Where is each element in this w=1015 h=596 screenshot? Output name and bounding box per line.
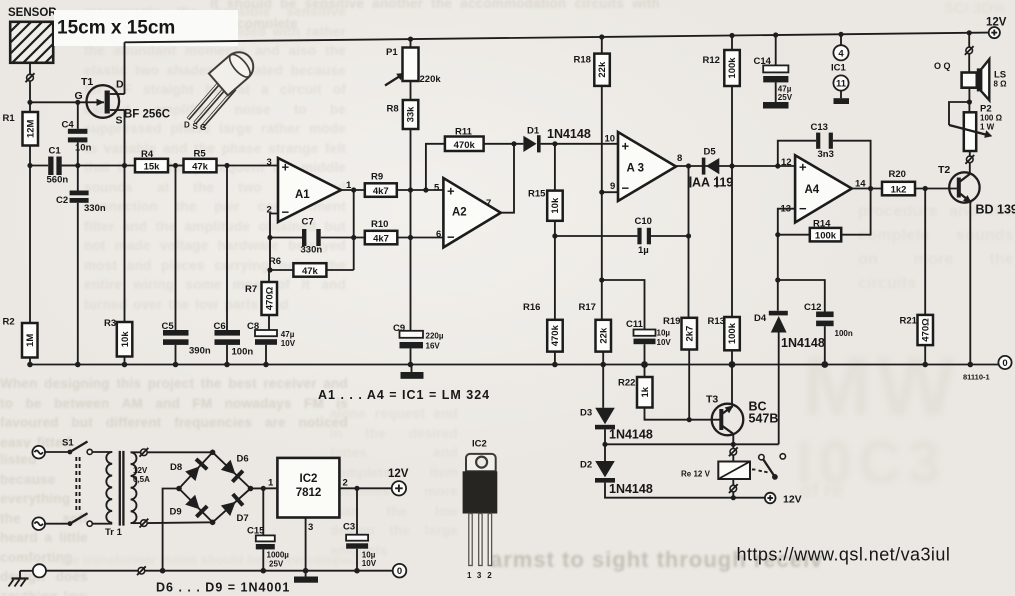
svg-text:470Ω: 470Ω <box>264 286 275 310</box>
capacitor C15 1000u electrolytic <box>247 488 289 570</box>
transistor T2 BD139 <box>938 164 980 206</box>
svg-text:IC2: IC2 <box>472 439 487 450</box>
svg-text:1k2: 1k2 <box>891 185 907 196</box>
resistor R21 470ohm <box>900 189 934 365</box>
+12V rail (top) <box>125 33 990 43</box>
svg-text:1M: 1M <box>25 334 36 347</box>
svg-text:R14: R14 <box>813 219 831 230</box>
svg-text:25V: 25V <box>269 560 284 569</box>
svg-text:D3: D3 <box>580 408 592 419</box>
svg-text:R5: R5 <box>194 149 207 160</box>
resistor R13 100k <box>708 316 740 365</box>
node: R15/C10 line <box>552 233 557 238</box>
node: A1 out / feedback <box>351 187 356 192</box>
svg-text:A4: A4 <box>805 184 820 196</box>
svg-text:11: 11 <box>836 79 847 90</box>
mains source lower <box>32 517 70 530</box>
op-amp A3 <box>605 132 683 201</box>
psu rail dots <box>160 568 360 574</box>
node: D1/R15 <box>552 141 557 146</box>
svg-text:100n: 100n <box>232 347 254 358</box>
resistor R9 4k7 <box>365 172 397 198</box>
svg-text:C5: C5 <box>162 321 175 332</box>
svg-text:390n: 390n <box>189 346 211 357</box>
svg-text:9: 9 <box>610 181 615 192</box>
wire: secondary bottom <box>131 522 141 524</box>
svg-text:0: 0 <box>1002 358 1007 369</box>
resistor R1 12M <box>3 102 39 165</box>
svg-text:D5: D5 <box>704 147 717 158</box>
capacitor C12 100n <box>778 280 853 365</box>
transistor package photo (TO-92) <box>184 46 259 132</box>
transformer Tr1 <box>105 451 150 538</box>
wire: rail to speaker <box>968 33 970 48</box>
node: pin2/R6/R7 <box>267 267 272 272</box>
svg-text:A1 . . . A4 = IC1 = LM 324: A1 . . . A4 = IC1 = LM 324 <box>318 388 490 402</box>
svg-text:547B: 547B <box>749 412 779 426</box>
ghost headline letters right side <box>802 338 959 435</box>
svg-text:A2: A2 <box>452 207 467 219</box>
node: P1 chain on pin5 line <box>408 187 413 192</box>
svg-text:4: 4 <box>838 48 844 59</box>
diode D1 1N4148 <box>523 126 618 153</box>
ground bar below pin11 <box>834 98 850 104</box>
node: T1 source on line <box>122 163 127 168</box>
svg-text:C12: C12 <box>804 302 821 313</box>
wire: A4 pin13 stub <box>778 209 795 235</box>
wire: sensor to gate node <box>29 63 31 103</box>
node: P1 chain on pin6 line <box>408 235 413 240</box>
svg-text:47k: 47k <box>192 162 209 173</box>
relay Re 12V <box>681 444 750 497</box>
svg-text:470k: 470k <box>454 140 476 151</box>
svg-text:16V: 16V <box>426 342 441 351</box>
capacitor C14 47u electrolytic <box>754 35 793 102</box>
svg-text:330n: 330n <box>84 203 106 214</box>
capacitor C11 10u electrolytic <box>602 280 672 365</box>
wire: bridge right to IC2 <box>251 487 278 489</box>
svg-text:R15: R15 <box>528 189 546 200</box>
diode D3 1N4148 <box>580 365 615 445</box>
node: relay bottom on 12V wire <box>731 495 736 500</box>
svg-text:BF 256C: BF 256C <box>124 109 170 121</box>
node: R11 tap on pin5 line <box>423 187 428 192</box>
node: R21 tap <box>923 186 928 191</box>
svg-text:R20: R20 <box>889 169 906 180</box>
ground bar below IC2 <box>294 577 318 583</box>
svg-text:470k: 470k <box>550 324 561 346</box>
bridge nodes <box>176 450 253 526</box>
svg-text:−: − <box>622 181 630 196</box>
node: R1 bottom / C1 left <box>27 163 32 168</box>
svg-text:12: 12 <box>781 157 792 168</box>
svg-text:C3: C3 <box>343 522 355 533</box>
node: pin2/C7 <box>267 235 272 240</box>
capacitor C2 330n <box>56 166 106 365</box>
svg-text:C2: C2 <box>56 195 68 206</box>
capacitor C1 560n (series in wire) <box>30 146 78 186</box>
wire: gate wire <box>30 101 104 103</box>
svg-text:+: + <box>447 184 455 199</box>
svg-text:47µ: 47µ <box>281 330 295 339</box>
wire: T2 emitter to 0 rail <box>969 202 971 365</box>
label BC 547B <box>749 400 779 426</box>
label AA119 <box>691 176 734 190</box>
node: R18 line to A3 pin9 <box>599 190 604 195</box>
svg-text:R8: R8 <box>387 104 399 115</box>
resistor R5 47k <box>184 149 217 173</box>
wire: A3 output line to A4 <box>676 165 795 167</box>
capacitor C8 47u electrolytic <box>247 321 296 365</box>
diode D7 <box>220 493 244 517</box>
svg-text:T2: T2 <box>938 164 950 176</box>
svg-text:D1: D1 <box>527 126 540 137</box>
svg-text:−: − <box>282 205 290 220</box>
bleed-through text, under IC2 photo column <box>330 404 458 596</box>
transistor T3 BC547B <box>706 394 743 436</box>
capacitor C4 10n <box>62 102 92 165</box>
svg-text:100n: 100n <box>835 329 853 338</box>
svg-text:G: G <box>75 90 83 102</box>
svg-text:IC2: IC2 <box>300 473 318 485</box>
white pasted label <box>54 10 238 46</box>
bleed-through magazine text, left column <box>84 2 346 368</box>
wire: C10/R19 vertical <box>688 166 690 318</box>
svg-text:12V: 12V <box>388 468 409 480</box>
svg-text:8 Ω: 8 Ω <box>994 80 1008 89</box>
resistor R12 100k <box>703 36 740 167</box>
connector (collector) <box>965 155 974 164</box>
+12V terminal (relay) <box>765 493 802 506</box>
node: T3 collector / relay <box>731 442 736 447</box>
svg-text:1: 1 <box>268 478 274 489</box>
svg-text:1k: 1k <box>640 386 651 397</box>
svg-text:1000µ: 1000µ <box>267 551 290 560</box>
svg-text:Tr 1: Tr 1 <box>105 527 123 538</box>
wire: A1 pin2 stub <box>270 214 278 271</box>
resistor R3 10k <box>104 318 132 365</box>
resistor R20 1k2 <box>882 169 915 196</box>
wire: R5 to A1 pin3 <box>217 165 279 167</box>
svg-text:C1: C1 <box>49 146 62 157</box>
svg-text:1N4148: 1N4148 <box>609 482 653 496</box>
svg-text:12V: 12V <box>986 17 1007 29</box>
IC2 regulator 7812 <box>268 458 348 533</box>
wire: T2 collector up <box>969 163 971 174</box>
svg-text:S1: S1 <box>62 438 74 449</box>
svg-text:A1: A1 <box>295 189 310 201</box>
wire: A2 output up <box>501 144 514 213</box>
svg-text:A 3: A 3 <box>627 163 644 175</box>
node: R14 tap on pin13 chain <box>775 232 780 237</box>
node: feedback vertical on output <box>868 186 873 191</box>
resistor R19 2k7 <box>663 316 697 420</box>
loudspeaker LS 8ohm <box>962 59 1008 100</box>
svg-text:8: 8 <box>677 153 682 164</box>
svg-text:C13: C13 <box>811 122 828 133</box>
connector (secondary bottom) <box>140 519 149 528</box>
svg-text:C15: C15 <box>247 526 265 537</box>
wire: T3 collector down <box>732 434 734 445</box>
svg-text:C7: C7 <box>302 217 314 228</box>
svg-text:220µ: 220µ <box>426 332 444 341</box>
capacitor C6 100n <box>214 166 254 365</box>
capacitor C5 390n <box>162 166 211 365</box>
node: feedback/R10 <box>351 235 356 240</box>
+12V terminal top right <box>986 17 1007 39</box>
wire: relay node line <box>605 443 779 445</box>
0V rail (main) <box>30 364 999 366</box>
svg-text:C11: C11 <box>626 319 644 330</box>
svg-text:0,5A: 0,5A <box>133 475 150 484</box>
svg-text:R7: R7 <box>245 284 257 295</box>
svg-text:100k: 100k <box>727 322 738 344</box>
node: C10 right <box>686 233 691 238</box>
svg-text:+: + <box>622 139 630 154</box>
connector (psu rail) <box>137 566 146 575</box>
diode D6 <box>220 459 244 483</box>
svg-text:BD 139: BD 139 <box>976 203 1015 217</box>
wire: IC2 pin3 down <box>305 518 307 577</box>
wire: to R3 <box>124 166 126 323</box>
wire: main input line to A1 <box>62 165 135 167</box>
svg-text:C6: C6 <box>214 321 226 332</box>
wire: pin13 chain down <box>777 235 779 311</box>
svg-text:1N4148: 1N4148 <box>547 127 591 141</box>
sensor plate (hatched box) <box>2 2 78 73</box>
wire: speaker to P2 <box>968 88 970 113</box>
svg-text:D: D <box>116 79 124 91</box>
svg-text:330n: 330n <box>301 245 323 256</box>
wire: R16 down <box>554 236 556 320</box>
connector (speaker top) <box>965 46 974 55</box>
svg-text:C14: C14 <box>754 56 772 67</box>
svg-text:T3: T3 <box>706 394 718 406</box>
svg-text:R16: R16 <box>523 302 540 313</box>
svg-text:15cm x 15cm: 15cm x 15cm <box>57 18 175 39</box>
wire: T1 drain to +12V rail <box>124 42 126 94</box>
IC1 supply pin 4 <box>833 34 848 60</box>
svg-text:4k7: 4k7 <box>373 186 389 197</box>
bleed-through text, left bottom <box>0 374 348 448</box>
svg-text:SENSOR: SENSOR <box>8 7 57 19</box>
node: R4/R5 C5 tap <box>173 163 178 168</box>
wire: IC2 out to 12V terminal <box>339 487 391 489</box>
diode D4 1N4148 <box>754 311 788 445</box>
svg-text:15k: 15k <box>144 162 161 173</box>
svg-text:12V: 12V <box>783 494 802 506</box>
0V rail junction dots <box>27 361 973 368</box>
svg-text:D7: D7 <box>237 513 249 524</box>
svg-text:D4: D4 <box>754 313 767 324</box>
capacitor C13 3n3 feedback <box>778 122 871 189</box>
op-amp A2 <box>434 178 501 247</box>
op-amp A4 <box>781 155 867 222</box>
wire: connector to P2 <box>969 151 971 156</box>
wire: R1 bottom to R2 <box>29 166 31 324</box>
resistor R22 1k <box>618 365 720 420</box>
svg-text:2: 2 <box>487 571 492 580</box>
svg-text:R22: R22 <box>618 378 635 389</box>
svg-text:R1: R1 <box>3 113 16 124</box>
svg-text:R11: R11 <box>455 127 473 138</box>
capacitor C9 220u electrolytic <box>393 323 444 365</box>
svg-text:10V: 10V <box>657 338 672 347</box>
svg-text:D6: D6 <box>237 454 249 465</box>
op-amp A1 <box>267 157 353 222</box>
+12V terminal (psu) <box>388 468 409 495</box>
resistor R15 10k <box>528 144 563 236</box>
svg-text:3: 3 <box>267 157 272 168</box>
node: C12 branch <box>775 277 780 282</box>
svg-text:10V: 10V <box>281 339 296 348</box>
wire: T1 source down <box>124 110 126 166</box>
svg-text:100 Ω: 100 Ω <box>980 114 1003 123</box>
node: R12 chain on A4 pin12 line <box>729 163 734 168</box>
svg-text:R6: R6 <box>269 256 281 267</box>
switch S1 <box>62 438 92 527</box>
svg-text:https://www.qsl.net/va3iul: https://www.qsl.net/va3iul <box>737 545 951 565</box>
resistor R16 470k <box>523 302 563 365</box>
IC2 package photo (TO-220) <box>463 439 498 581</box>
svg-text:−: − <box>447 230 455 245</box>
svg-text:C4: C4 <box>62 120 75 131</box>
wire: R8 down to C9 <box>410 129 412 331</box>
svg-text:6: 6 <box>436 229 441 240</box>
capacitor C7 330n <box>270 217 354 256</box>
capacitor C3 10u electrolytic <box>343 488 377 570</box>
svg-text:12M: 12M <box>25 119 36 138</box>
svg-text:10: 10 <box>605 134 616 145</box>
rail junction dots <box>408 30 972 42</box>
connector (secondary top) <box>140 448 149 457</box>
svg-text:R17: R17 <box>579 302 596 313</box>
svg-text:S: S <box>193 122 199 131</box>
resistor R11 470k feedback <box>426 127 524 191</box>
svg-text:R2: R2 <box>3 317 15 328</box>
svg-text:7: 7 <box>486 198 491 209</box>
svg-text:D2: D2 <box>580 460 592 471</box>
connector (sensor lead) <box>26 73 35 82</box>
svg-text:1N4148: 1N4148 <box>609 428 653 442</box>
wire: pin9 stub <box>602 191 618 193</box>
svg-text:10µ: 10µ <box>657 329 671 338</box>
bottom gray bleed headline <box>490 547 823 573</box>
wire: R12 node to R13 <box>731 166 733 317</box>
node: gate junction <box>27 100 32 105</box>
svg-text:D8: D8 <box>170 462 182 473</box>
bleed-through text, top strip <box>210 0 660 28</box>
mains source upper <box>32 446 70 459</box>
node: C13 tap on pin12 line <box>775 163 780 168</box>
svg-text:C9: C9 <box>393 323 405 334</box>
ground bar below C9 <box>401 365 424 379</box>
svg-text:R10: R10 <box>371 219 388 230</box>
node: C11 branch <box>599 277 604 282</box>
svg-text:220k: 220k <box>420 74 442 85</box>
svg-text:1µ: 1µ <box>638 245 649 256</box>
node: C15 tap <box>261 486 266 491</box>
svg-text:25V: 25V <box>778 93 793 102</box>
svg-text:0: 0 <box>397 566 402 577</box>
bleed-through text, right column <box>858 200 1014 305</box>
svg-text:O Q: O Q <box>934 61 951 71</box>
svg-text:S: S <box>116 115 123 127</box>
svg-text:R4: R4 <box>141 149 154 160</box>
wire: down to R17 <box>601 192 603 320</box>
svg-text:3n3: 3n3 <box>818 149 834 160</box>
0V rail (psu) <box>46 570 392 572</box>
earth terminal <box>9 564 47 586</box>
svg-text:12V: 12V <box>133 466 148 475</box>
wire: feedback vertical <box>353 190 355 270</box>
node: C4 tap on gate wire <box>75 100 80 105</box>
svg-text:10V: 10V <box>362 559 377 568</box>
wire: A4 output to T2 base <box>852 188 957 190</box>
svg-text:4k7: 4k7 <box>373 234 389 245</box>
svg-text:2: 2 <box>343 478 348 489</box>
svg-text:R3: R3 <box>104 318 116 329</box>
svg-text:100k: 100k <box>727 57 738 79</box>
node: output/R11/D1 line <box>511 141 516 146</box>
wire: feedback line to A2 pin6 <box>354 237 444 239</box>
svg-text:7812: 7812 <box>296 487 322 499</box>
wire: switch to transformer <box>92 451 112 453</box>
svg-text:D6 . . . D9 = 1N4001: D6 . . . D9 = 1N4001 <box>156 581 290 595</box>
resistor R10 4k7 <box>365 219 398 245</box>
wire: bridge left to 0 rail <box>163 489 179 571</box>
svg-text:IC1: IC1 <box>831 63 847 74</box>
svg-text:+: + <box>282 160 290 175</box>
svg-text:C8: C8 <box>247 321 259 332</box>
svg-text:1: 1 <box>467 571 472 580</box>
svg-text:560n: 560n <box>47 175 69 186</box>
svg-text:22k: 22k <box>598 327 609 344</box>
transistor T1 (BF256C JFET) <box>75 76 125 127</box>
resistor R4 15k <box>135 149 168 173</box>
svg-text:D9: D9 <box>170 507 182 518</box>
wire: A1 output <box>341 189 365 191</box>
svg-text:R12: R12 <box>703 55 720 66</box>
node: C3 tap <box>354 486 359 491</box>
svg-text:−: − <box>799 201 807 216</box>
resistor R7 470ohm <box>245 270 277 330</box>
svg-text:3: 3 <box>308 522 313 533</box>
0V terminal right <box>998 356 1011 369</box>
resistor R6 47k <box>269 256 354 277</box>
svg-text:2k7: 2k7 <box>684 326 695 342</box>
svg-text:P1: P1 <box>386 47 398 58</box>
wire: T3 emitter to rail <box>731 365 733 406</box>
relay contact <box>752 454 786 480</box>
resistor R17 22k <box>579 302 612 365</box>
svg-text:22k: 22k <box>597 61 608 78</box>
svg-text:33k: 33k <box>406 106 417 123</box>
svg-text:D: D <box>184 121 190 130</box>
svg-text:C10: C10 <box>635 216 652 227</box>
svg-text:R13: R13 <box>708 316 725 327</box>
svg-text:100k: 100k <box>815 231 837 242</box>
0V terminal (psu) <box>393 564 407 578</box>
capacitor C10 1u <box>555 216 689 256</box>
svg-text:10k: 10k <box>550 197 561 214</box>
svg-text:+: + <box>799 160 807 175</box>
diode D9 <box>185 494 209 518</box>
resistor R18 22k <box>574 37 610 192</box>
node: A3out/C10/R19 <box>686 163 691 168</box>
svg-text:G: G <box>200 123 206 132</box>
potentiometer P2 100ohm <box>949 102 1003 151</box>
